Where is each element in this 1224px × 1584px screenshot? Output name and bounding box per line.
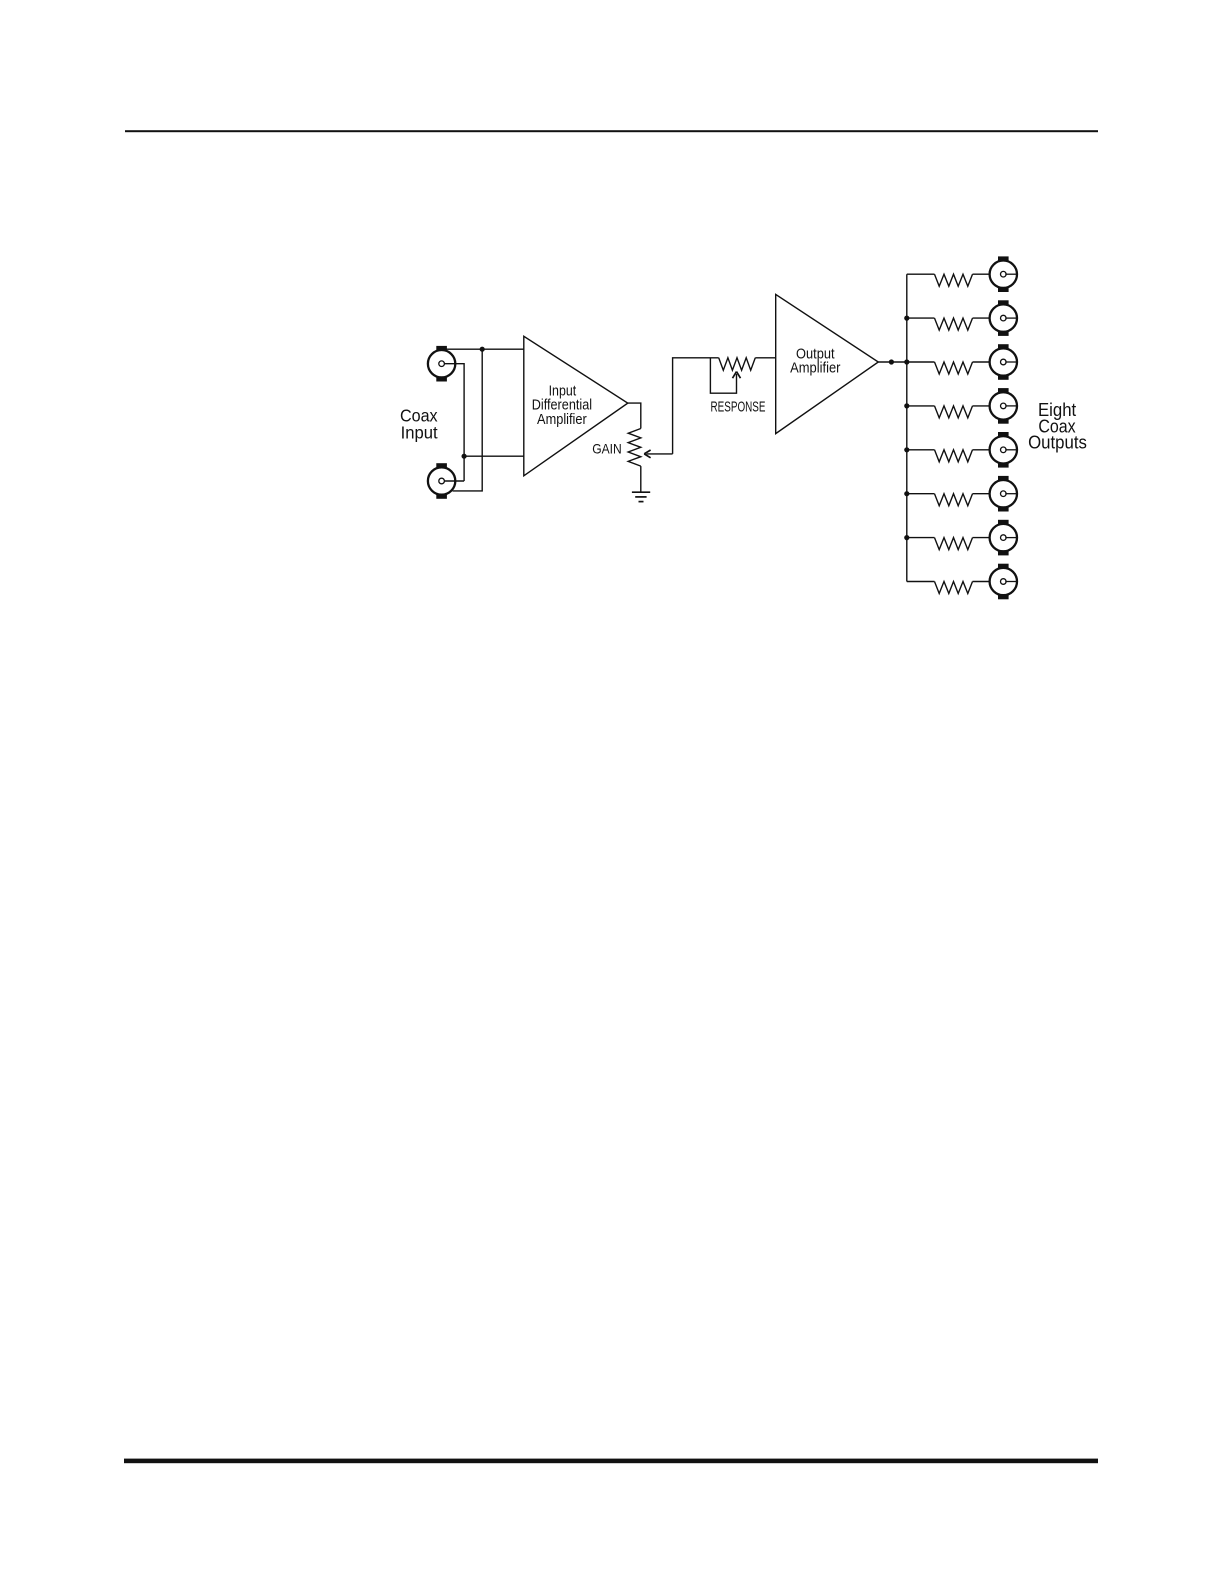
coax input BNC connector J1 (top) <box>428 346 455 382</box>
gain wiper arrow <box>644 450 672 458</box>
node: bus junction dot row 5 <box>904 447 909 452</box>
resistor R1 <box>935 274 973 286</box>
bottom horizontal rule <box>124 1459 1098 1464</box>
wire: vertical distribution bus <box>906 274 908 581</box>
coax output BNC connector 8 <box>990 564 1018 600</box>
resistor R3 <box>935 362 973 374</box>
wire: bus to resistor R8 <box>907 581 935 583</box>
label "Input Differential Amplifier" <box>532 384 592 428</box>
ground <box>632 492 650 501</box>
wire: response pot to output amplifier <box>755 357 775 359</box>
wire: gain wiper feedback up and right to response pot <box>673 358 719 454</box>
coax output BNC connector 1 <box>990 256 1018 292</box>
wire: U1 output to gain control <box>628 403 641 428</box>
coax output BNC connector 6 <box>990 476 1018 512</box>
svg-text:Outputs: Outputs <box>1028 433 1087 453</box>
label "Eight Coax Outputs" <box>1028 400 1087 452</box>
wire: resistor R4 to output connector <box>973 405 990 407</box>
resistor R6 <box>935 494 973 506</box>
wire: U2 output to distribution bus <box>878 361 907 363</box>
wire: gain pot to ground <box>640 466 642 492</box>
wire: resistor R5 to output connector <box>973 449 990 451</box>
wire: resistor R3 to output connector <box>973 361 990 363</box>
resistor R4 <box>935 406 973 418</box>
wire: bus to resistor R4 <box>907 405 935 407</box>
top horizontal rule <box>125 130 1098 132</box>
wire: resistor R6 to output connector <box>973 493 990 495</box>
potentiometer GAIN (vertical resistor) <box>628 429 641 467</box>
svg-text:GAIN: GAIN <box>592 441 622 456</box>
wire: bus to resistor R7 <box>907 537 935 539</box>
node: bus junction dot row 6 <box>904 491 909 496</box>
wire: shield bus down to J2 <box>453 349 483 491</box>
svg-text:Amplifier: Amplifier <box>537 412 587 428</box>
node: bus junction dot row 2 <box>904 316 909 321</box>
coax output BNC connector 2 <box>990 300 1018 336</box>
wire: J1 shield to amplifier upper input <box>443 348 524 350</box>
resistor R7 <box>935 538 973 550</box>
wire: resistor R7 to output connector <box>973 537 990 539</box>
label "Coax Input" <box>400 406 438 443</box>
node: bus junction dot row 4 <box>904 403 909 408</box>
wire: bus to resistor R2 <box>907 317 935 319</box>
label "Output Amplifier" <box>790 347 840 377</box>
wire: bus to resistor R5 <box>907 449 935 451</box>
resistor R5 <box>935 450 973 462</box>
wire: bus to resistor R6 <box>907 493 935 495</box>
svg-text:RESPONSE: RESPONSE <box>711 399 766 415</box>
coax input BNC connector J2 (bottom) <box>428 463 455 499</box>
op-amp U2 Output Amplifier triangle <box>776 294 879 433</box>
wire: resistor R8 to output connector <box>973 581 990 583</box>
resistor R2 <box>935 318 973 330</box>
node: junction dot on pin bus <box>462 454 467 459</box>
response wiper arrow with return to left terminal <box>710 358 740 393</box>
node: junction dot on shield wire <box>480 347 485 352</box>
wire: resistor R2 to output connector <box>973 317 990 319</box>
node: junction dot at U2 output <box>889 359 894 364</box>
coax output BNC connector 7 <box>990 520 1018 556</box>
coax output BNC connector 5 <box>990 432 1018 468</box>
potentiometer RESPONSE (horizontal resistor) <box>719 358 756 370</box>
svg-text:Input: Input <box>401 422 438 442</box>
coax output BNC connector 4 <box>990 388 1018 424</box>
node: bus junction dot row 3 <box>904 359 909 364</box>
coax output BNC connector 3 <box>990 344 1018 380</box>
wire: pin bus to amplifier lower input <box>464 455 524 457</box>
wire: resistor R1 to output connector <box>973 273 990 275</box>
wire: J2 center pin to pin bus <box>444 480 464 482</box>
wire: J1 center pin right then down <box>444 364 464 481</box>
svg-text:Amplifier: Amplifier <box>790 361 840 377</box>
wire: bus to resistor R3 <box>907 361 935 363</box>
op-amp U1 Input Differential Amplifier triangle <box>524 336 628 476</box>
node: bus junction dot row 7 <box>904 535 909 540</box>
wire: bus to resistor R1 <box>907 273 935 275</box>
resistor R8 <box>935 582 973 594</box>
